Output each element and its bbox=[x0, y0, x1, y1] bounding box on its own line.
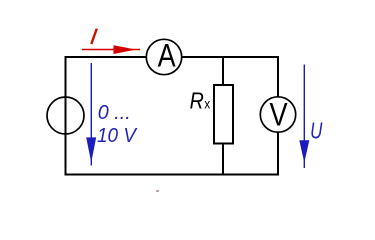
stray dot artifact bbox=[156, 190, 159, 192]
voltage arrow U (blue, down) bbox=[303, 65, 305, 169]
svg-text:0 ...: 0 ... bbox=[98, 101, 131, 124]
wire right vertical (bottom part) bbox=[277, 132, 279, 176]
resistor Rx body bbox=[214, 85, 233, 144]
svg-text:x: x bbox=[204, 97, 210, 112]
wire right vertical (top part) bbox=[277, 56, 279, 97]
voltage source (circle over left wire) bbox=[47, 97, 84, 134]
source voltage arrow (blue, down) bbox=[90, 63, 92, 166]
voltmeter circle bbox=[260, 97, 295, 132]
wire middle branch upper bbox=[222, 56, 224, 86]
svg-text:U: U bbox=[310, 118, 322, 144]
wire middle branch lower bbox=[222, 143, 224, 176]
current arrow I (red) bbox=[82, 49, 140, 51]
wire left vertical bbox=[65, 56, 67, 176]
wire top-left horizontal segment bbox=[65, 56, 147, 58]
label I (red) bbox=[91, 29, 97, 44]
svg-text:V: V bbox=[270, 96, 289, 132]
svg-text:10 V: 10 V bbox=[97, 124, 138, 147]
svg-text:R: R bbox=[190, 88, 204, 114]
wire bottom horizontal bbox=[65, 174, 280, 176]
ammeter U1 circle bbox=[146, 39, 181, 74]
svg-text:A: A bbox=[158, 38, 177, 74]
wire top-right horizontal segment bbox=[182, 56, 280, 58]
